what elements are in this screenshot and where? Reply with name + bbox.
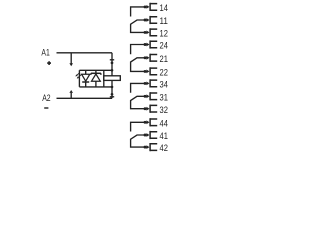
junction node 32 (144, 107, 147, 110)
junction node 42 (144, 146, 147, 149)
LED indicator diode (75, 70, 89, 87)
svg-text:11: 11 (160, 16, 168, 26)
terminal socket 22 (146, 67, 157, 75)
terminal socket 24 (146, 40, 157, 48)
svg-text:41: 41 (160, 131, 168, 141)
svg-text:12: 12 (160, 29, 168, 39)
node box bottom rail (111, 86, 114, 89)
polarity minus mark (44, 107, 48, 109)
junction node 14 (144, 5, 147, 8)
wire COM 11 movable contact to NC 12 (131, 20, 147, 32)
terminal socket 21 (146, 54, 157, 62)
svg-text:21: 21 (160, 54, 168, 64)
terminal socket 42 (146, 143, 157, 151)
plug-in pin coil top (110, 60, 114, 64)
junction node 34 (144, 82, 147, 85)
wire COM 21 movable contact to NC 22 (131, 58, 147, 72)
junction node 41 (144, 134, 147, 137)
junction node 22 (144, 70, 147, 73)
terminal socket 41 (146, 131, 157, 139)
junction node 44 (144, 121, 147, 124)
wire coil branch vertical (111, 53, 113, 99)
svg-text:44: 44 (160, 118, 168, 128)
relay coil K1 (104, 76, 121, 81)
junction node 11 (144, 19, 147, 22)
suppressor module box (79, 70, 112, 87)
svg-text:22: 22 (160, 68, 168, 78)
terminal socket 11 (146, 16, 157, 24)
wire COM 31 movable contact to NC 32 (131, 96, 147, 108)
wire NO 34 with hook (131, 83, 147, 92)
wire COM 41 movable contact to NC 42 (131, 135, 147, 147)
terminal socket 34 (146, 79, 157, 87)
svg-text:24: 24 (160, 41, 168, 51)
terminal socket 32 (146, 105, 157, 113)
terminal socket 12 (146, 28, 157, 36)
wire A2 bottom rail (57, 97, 113, 99)
wire NO 44 with hook (131, 122, 147, 131)
wire A1 top rail (57, 52, 113, 54)
junction node 21 (144, 56, 147, 59)
protection zener diode (91, 70, 101, 87)
plug-in pin coil bottom (110, 93, 114, 97)
node box top rail (111, 69, 114, 72)
svg-text:42: 42 (160, 143, 168, 153)
plug-in pin A2 (69, 90, 73, 98)
plug-in pin A1 (69, 53, 73, 67)
svg-text:A1: A1 (41, 48, 49, 58)
terminal socket 44 (146, 118, 157, 126)
wire NO 24 with hook (131, 45, 147, 55)
svg-text:14: 14 (160, 3, 168, 13)
svg-text:34: 34 (160, 80, 168, 90)
svg-text:31: 31 (160, 92, 168, 102)
wire NO 14 with hook (131, 7, 147, 17)
junction node 12 (144, 31, 147, 34)
svg-text:32: 32 (160, 105, 168, 115)
terminal socket 14 (146, 3, 157, 11)
polarity plus mark (47, 61, 51, 65)
terminal socket 31 (146, 92, 157, 100)
junction node 31 (144, 95, 147, 98)
junction node 24 (144, 43, 147, 46)
svg-text:A2: A2 (42, 93, 50, 103)
